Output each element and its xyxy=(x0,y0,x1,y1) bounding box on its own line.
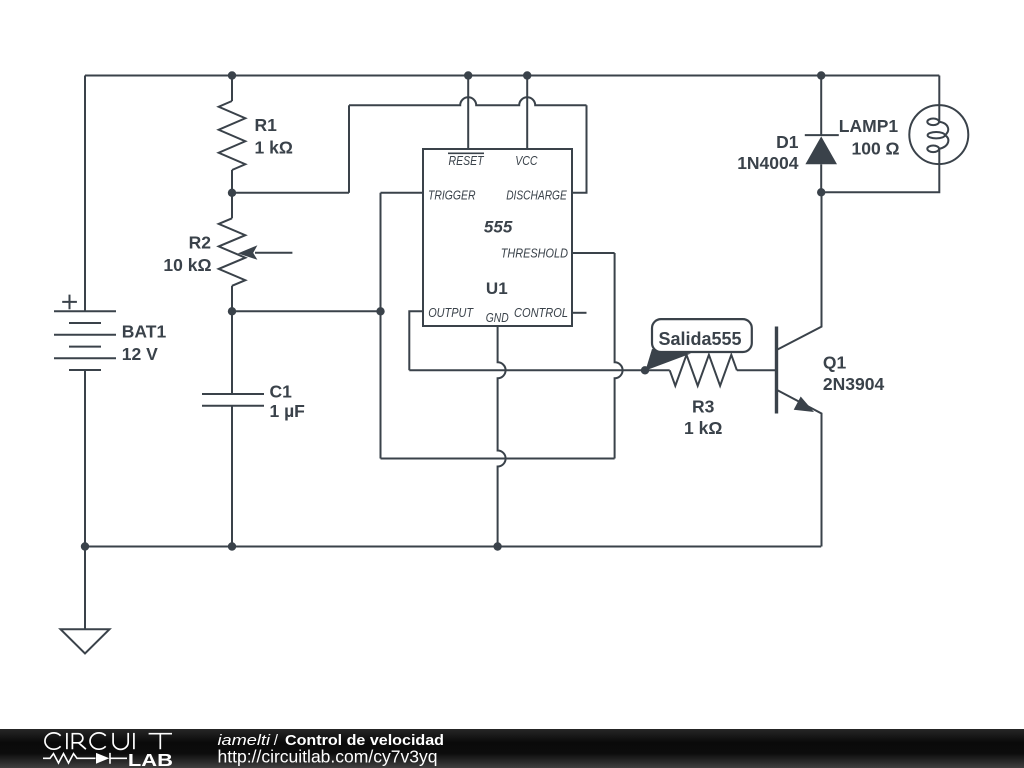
svg-text:TRIGGER: TRIGGER xyxy=(428,187,476,202)
svg-text:R2: R2 xyxy=(189,232,212,252)
svg-text:BAT1: BAT1 xyxy=(122,322,167,342)
svg-text:LAB: LAB xyxy=(128,750,173,768)
svg-text:THRESHOLD: THRESHOLD xyxy=(501,245,568,260)
svg-text:100 Ω: 100 Ω xyxy=(852,139,900,159)
svg-text:2N3904: 2N3904 xyxy=(823,374,885,394)
svg-text:DISCHARGE: DISCHARGE xyxy=(506,187,567,202)
svg-text:1 kΩ: 1 kΩ xyxy=(684,418,722,438)
svg-text:1 µF: 1 µF xyxy=(270,401,306,421)
svg-text:1N4004: 1N4004 xyxy=(737,153,799,173)
svg-text:http://circuitlab.com/cy7v3yq: http://circuitlab.com/cy7v3yq xyxy=(218,747,438,767)
svg-text:R1: R1 xyxy=(255,115,278,135)
svg-text:Q1: Q1 xyxy=(823,352,847,372)
svg-text:R3: R3 xyxy=(692,397,715,417)
svg-text:U1: U1 xyxy=(486,279,508,298)
svg-text:GND: GND xyxy=(486,310,509,325)
svg-text:1 kΩ: 1 kΩ xyxy=(255,138,293,158)
svg-text:LAMP1: LAMP1 xyxy=(839,116,899,136)
svg-text:D1: D1 xyxy=(776,132,799,152)
svg-text:OUTPUT: OUTPUT xyxy=(428,305,474,320)
svg-text:12 V: 12 V xyxy=(122,344,158,364)
svg-text:Salida555: Salida555 xyxy=(658,329,741,349)
svg-text:CONTROL: CONTROL xyxy=(514,305,568,320)
svg-text:10 kΩ: 10 kΩ xyxy=(163,255,211,275)
svg-text:RESET: RESET xyxy=(449,153,485,168)
svg-text:C1: C1 xyxy=(270,381,293,401)
svg-text:555: 555 xyxy=(484,217,513,236)
svg-text:VCC: VCC xyxy=(515,153,538,168)
